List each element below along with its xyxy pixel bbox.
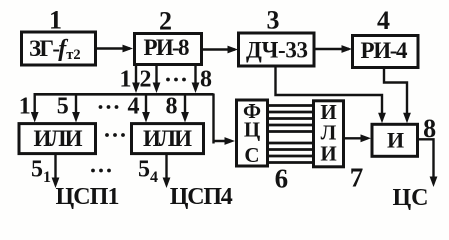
block U6 ИЛИ-4 box xyxy=(132,124,204,154)
svg-text:И: И xyxy=(320,142,336,166)
wire bundle bottom lines U7 to U8 xyxy=(268,142,314,145)
wire bundle top lines U7 to U8 xyxy=(268,104,314,107)
wire U6 output down xyxy=(165,154,167,182)
arrowhead into U9 left xyxy=(361,134,372,142)
svg-text:5: 5 xyxy=(57,94,69,120)
arrowhead U5 output xyxy=(52,178,60,189)
svg-text:РИ-8: РИ-8 xyxy=(144,35,190,60)
wire U2 output 1 down xyxy=(135,65,137,88)
block U7 ФЦС box xyxy=(237,100,268,166)
wire bus drop 1 xyxy=(34,94,36,116)
dots between bus drops xyxy=(99,105,103,109)
arrowhead into U7 xyxy=(225,137,236,145)
svg-text:2: 2 xyxy=(159,7,172,36)
arrowhead U2 out8 onto bus xyxy=(192,83,200,94)
wire U5 output down xyxy=(54,154,56,182)
arrowhead U2 out2 onto bus xyxy=(153,83,161,94)
svg-text:8: 8 xyxy=(166,94,178,120)
dots between U5 and U6 xyxy=(105,133,109,137)
svg-text:6: 6 xyxy=(275,164,289,194)
svg-text:4: 4 xyxy=(128,94,140,120)
wire U1 to U2 xyxy=(96,47,131,49)
arrowhead into U2 xyxy=(123,45,134,53)
wire U2 to U3 xyxy=(202,48,235,50)
wire U3 down and right to U9 top xyxy=(276,66,383,119)
arrowhead bus drop 4 into U6 xyxy=(142,112,150,123)
dots between U2 outputs xyxy=(166,78,170,82)
block U1 ЗГ-fт2 box xyxy=(22,32,96,65)
wire U2 output 2 down xyxy=(155,65,157,88)
wire U3 to U4 xyxy=(315,48,350,50)
svg-text:РИ-4: РИ-4 xyxy=(361,38,409,63)
svg-text:ЦС: ЦС xyxy=(393,185,429,211)
svg-text:ЦСП1: ЦСП1 xyxy=(56,184,120,210)
dots between U5 U6 outputs xyxy=(91,169,95,173)
svg-text:И: И xyxy=(387,128,404,153)
arrowhead ЦС output xyxy=(430,177,438,188)
wire bus right end to U7 input xyxy=(212,94,214,144)
wire U8 to U9 xyxy=(344,137,369,139)
wire bus drop 8 xyxy=(184,94,186,116)
svg-text:8: 8 xyxy=(200,67,212,93)
arrowhead bus drop 5 into U5 xyxy=(72,112,80,123)
arrowhead U4 line into U9 top xyxy=(403,113,411,124)
wire bus horizontal xyxy=(34,93,214,96)
arrowhead U3 line into U9 top xyxy=(378,113,386,124)
wire bus drop 4 xyxy=(145,94,147,116)
svg-text:ИЛИ: ИЛИ xyxy=(34,126,83,151)
wire U2 output 8 down xyxy=(194,65,196,88)
svg-text:ДЧ-33: ДЧ-33 xyxy=(246,38,308,63)
svg-text:1: 1 xyxy=(49,6,62,35)
arrowhead into U4 xyxy=(342,45,353,53)
arrowhead bus drop 1 into U5 xyxy=(31,112,39,123)
block U3 ДЧ-33 box xyxy=(239,33,315,66)
svg-text:7: 7 xyxy=(350,163,364,193)
arrowhead U2 out1 onto bus xyxy=(132,83,140,94)
svg-text:4: 4 xyxy=(377,6,390,35)
svg-text:1: 1 xyxy=(120,67,132,93)
block U4 РИ-4 box xyxy=(353,36,419,68)
svg-text:2: 2 xyxy=(140,67,152,93)
arrowhead into U3 xyxy=(228,46,239,54)
block U8 ИЛИ-7 box xyxy=(314,101,344,167)
arrowhead bus drop 8 into U6 xyxy=(181,112,189,123)
svg-text:ЦСП4: ЦСП4 xyxy=(170,184,233,210)
svg-text:1: 1 xyxy=(19,94,31,120)
svg-text:8: 8 xyxy=(423,114,436,143)
wire U9 output to ЦС arrow xyxy=(418,139,434,182)
svg-text:3: 3 xyxy=(267,6,280,35)
block U2 РИ-8 box xyxy=(135,34,202,65)
svg-text:С: С xyxy=(244,143,259,167)
wire bus drop 5 xyxy=(75,94,77,116)
arrowhead U6 output xyxy=(163,178,171,189)
block U9 И box xyxy=(372,124,418,156)
block U5 ИЛИ-1 box xyxy=(19,124,96,154)
svg-text:ИЛИ: ИЛИ xyxy=(143,126,192,151)
svg-text:Ц: Ц xyxy=(244,118,260,142)
wire U4 down and right to U9 top xyxy=(384,68,407,120)
